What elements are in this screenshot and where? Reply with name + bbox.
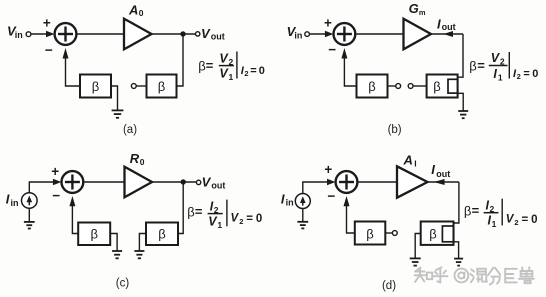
ground right (d) bbox=[454, 259, 463, 266]
feedback network beta right (b) bbox=[427, 75, 458, 98]
svg-text:(d): (d) bbox=[382, 280, 396, 292]
op-amp Gm (b) bbox=[404, 19, 432, 50]
svg-text:I: I bbox=[6, 192, 10, 207]
svg-text:1: 1 bbox=[229, 72, 234, 82]
svg-text:+: + bbox=[324, 16, 332, 31]
summing junction S2 (b) bbox=[334, 23, 356, 45]
svg-text:0: 0 bbox=[531, 214, 537, 226]
svg-text:+: + bbox=[51, 164, 59, 179]
wire short to ground (d) bbox=[454, 242, 459, 258]
label Iout (b) bbox=[437, 16, 456, 32]
label Iout (d) bbox=[431, 162, 450, 179]
ground Iin (d) bbox=[297, 222, 308, 229]
wire summer to amp (a) bbox=[76, 33, 124, 35]
label Gm (b) bbox=[409, 1, 426, 17]
wire amp output with current arrow (b) bbox=[431, 31, 463, 37]
svg-text:=: = bbox=[206, 58, 214, 73]
svg-text:−: − bbox=[45, 43, 53, 58]
label AI (d) bbox=[403, 152, 417, 168]
terminal feedback open (d) bbox=[385, 231, 397, 236]
terminal Vout (a) bbox=[196, 32, 200, 36]
short-circuit port (d) bbox=[442, 226, 453, 242]
label R0 (c) bbox=[130, 151, 145, 167]
wire summer to amp (d) bbox=[357, 181, 397, 183]
svg-text:β: β bbox=[429, 227, 436, 242]
svg-text:0: 0 bbox=[256, 213, 262, 225]
svg-text:A: A bbox=[403, 152, 413, 167]
svg-text:=: = bbox=[523, 68, 529, 80]
label Vout (c) bbox=[202, 174, 226, 190]
svg-text:=: = bbox=[246, 213, 253, 225]
op-amp A0 (a) bbox=[124, 19, 152, 50]
label A0 (a) bbox=[128, 2, 144, 18]
wire source to ground (d) bbox=[302, 209, 304, 222]
svg-text:=: = bbox=[195, 204, 203, 219]
svg-text:(c): (c) bbox=[116, 277, 130, 289]
svg-text:I: I bbox=[493, 67, 497, 81]
svg-text:β: β bbox=[198, 59, 205, 74]
svg-text:V: V bbox=[201, 26, 211, 41]
watermark zhihu bbox=[415, 267, 534, 284]
short-circuit port (b) bbox=[448, 79, 458, 93]
svg-text:−: − bbox=[328, 42, 336, 57]
wire Vin to summer (a) bbox=[31, 31, 55, 38]
terminal Vout (c) bbox=[196, 180, 200, 184]
label Iin (d) bbox=[281, 191, 294, 207]
wire Vin to summer (b) bbox=[310, 31, 334, 38]
ground (a) bbox=[112, 110, 124, 117]
label Vout (a) bbox=[201, 26, 225, 42]
wire output to feedback (a) bbox=[177, 34, 184, 86]
summing junction S1 (a) bbox=[55, 23, 77, 45]
svg-text:0: 0 bbox=[140, 157, 145, 167]
wire short to ground (b) bbox=[458, 93, 464, 110]
formula beta b bbox=[469, 51, 538, 82]
svg-text:m: m bbox=[419, 8, 426, 17]
svg-text:2: 2 bbox=[239, 217, 243, 226]
svg-text:2: 2 bbox=[514, 218, 518, 227]
terminal feedback open right (b) bbox=[408, 84, 426, 89]
svg-text:=: = bbox=[522, 214, 529, 226]
svg-text:V: V bbox=[202, 174, 212, 189]
svg-text:in: in bbox=[294, 31, 302, 41]
ground (b) bbox=[458, 111, 468, 118]
svg-text:=: = bbox=[250, 65, 256, 77]
wire amp to output (c) bbox=[152, 181, 196, 183]
terminal Vin (a) bbox=[26, 32, 31, 37]
svg-text:out: out bbox=[211, 180, 225, 190]
junction output node (a) bbox=[180, 31, 185, 36]
svg-text:in: in bbox=[15, 30, 23, 40]
feedback network beta left (a) bbox=[80, 75, 111, 98]
svg-text:I: I bbox=[431, 162, 435, 177]
svg-text:V: V bbox=[231, 213, 240, 225]
formula beta c bbox=[187, 199, 262, 230]
label Vin (a) bbox=[7, 24, 23, 41]
wire right beta to ground (c) bbox=[139, 234, 146, 251]
wire feedback to summer (c) bbox=[69, 196, 78, 234]
svg-text:0: 0 bbox=[532, 68, 538, 80]
formula beta d bbox=[464, 199, 538, 230]
wire feedback to summer (a) bbox=[63, 48, 81, 86]
feedback network beta right (c) bbox=[146, 223, 178, 246]
junction output node (c) bbox=[181, 179, 186, 184]
svg-text:I: I bbox=[414, 158, 416, 168]
svg-text:β: β bbox=[92, 79, 99, 94]
wire feedback to summer (d) bbox=[344, 196, 355, 233]
svg-text:2: 2 bbox=[244, 69, 248, 78]
wire feedback to ground (a) bbox=[111, 86, 118, 110]
svg-text:0: 0 bbox=[139, 8, 144, 18]
wire amp output with current arrow (d) bbox=[428, 179, 459, 185]
svg-text:in: in bbox=[11, 198, 19, 208]
svg-text:(b): (b) bbox=[388, 124, 402, 136]
terminal Vin (b) bbox=[305, 32, 310, 37]
formula beta a bbox=[198, 51, 265, 82]
svg-text:=: = bbox=[472, 203, 480, 218]
terminal feedback open (a) bbox=[131, 84, 146, 89]
svg-text:out: out bbox=[436, 169, 450, 179]
op-amp AI (d) bbox=[397, 166, 428, 197]
svg-text:−: − bbox=[52, 188, 60, 203]
svg-text:out: out bbox=[211, 32, 225, 42]
label Iin (c) bbox=[6, 192, 19, 208]
ground left of right beta (d) bbox=[410, 258, 421, 265]
svg-text:2: 2 bbox=[517, 72, 521, 81]
svg-text:G: G bbox=[409, 1, 419, 16]
feedback network beta left (b) bbox=[357, 75, 388, 98]
svg-text:V: V bbox=[506, 214, 515, 226]
svg-text:+: + bbox=[43, 15, 51, 30]
svg-text:β: β bbox=[90, 227, 97, 242]
wire feedback to summer (b) bbox=[341, 48, 356, 86]
terminal feedback open left (b) bbox=[388, 84, 401, 89]
ground right beta (c) bbox=[134, 251, 144, 258]
svg-text:in: in bbox=[286, 198, 294, 208]
svg-text:A: A bbox=[128, 2, 138, 17]
svg-text:=: = bbox=[477, 58, 485, 73]
wire output to feedback (c) bbox=[178, 182, 183, 234]
wire source to summer (d) bbox=[303, 179, 336, 194]
svg-text:β: β bbox=[187, 204, 194, 219]
svg-text:β: β bbox=[469, 59, 476, 74]
svg-text:out: out bbox=[442, 22, 456, 32]
feedback network beta right (a) bbox=[147, 75, 177, 98]
wire source to summer (c) bbox=[29, 179, 61, 193]
svg-text:−: − bbox=[327, 189, 335, 204]
summing junction S4 (d) bbox=[336, 171, 358, 193]
feedback network beta left (c) bbox=[78, 223, 110, 246]
ground left beta (c) bbox=[112, 251, 122, 258]
wire amp to output (a) bbox=[152, 33, 196, 35]
svg-text:β: β bbox=[368, 79, 375, 94]
svg-text:β: β bbox=[366, 227, 373, 242]
svg-text:1: 1 bbox=[498, 72, 503, 82]
current source Iin (d) bbox=[295, 194, 310, 209]
wire source to ground (c) bbox=[28, 208, 30, 221]
svg-text:0: 0 bbox=[259, 65, 265, 77]
wire summer to amp (c) bbox=[83, 181, 125, 183]
wire left beta to ground (c) bbox=[110, 234, 117, 251]
svg-text:I: I bbox=[437, 16, 441, 31]
svg-text:β: β bbox=[433, 79, 440, 94]
wire output down to feedback (b) bbox=[458, 34, 463, 77]
op-amp R0 (c) bbox=[125, 167, 153, 198]
svg-text:β: β bbox=[464, 203, 471, 218]
wire summer to amp (b) bbox=[355, 33, 404, 35]
svg-text:+: + bbox=[324, 162, 332, 177]
feedback network beta left (d) bbox=[355, 222, 386, 245]
svg-text:β: β bbox=[158, 79, 165, 94]
label Vin (b) bbox=[287, 24, 303, 41]
feedback network beta right (d) bbox=[421, 222, 454, 245]
svg-text:(a): (a) bbox=[123, 124, 137, 136]
svg-text:1: 1 bbox=[492, 219, 497, 229]
svg-text:I: I bbox=[281, 191, 285, 206]
ground Iin (c) bbox=[24, 222, 35, 229]
wire output down to feedback (d) bbox=[454, 182, 459, 223]
current source Iin (c) bbox=[22, 193, 38, 209]
wire right beta left side to ground (d) bbox=[415, 234, 421, 259]
svg-text:β: β bbox=[158, 227, 165, 242]
summing junction S3 (c) bbox=[62, 171, 84, 193]
svg-text:1: 1 bbox=[217, 220, 222, 230]
svg-text:R: R bbox=[130, 151, 140, 166]
